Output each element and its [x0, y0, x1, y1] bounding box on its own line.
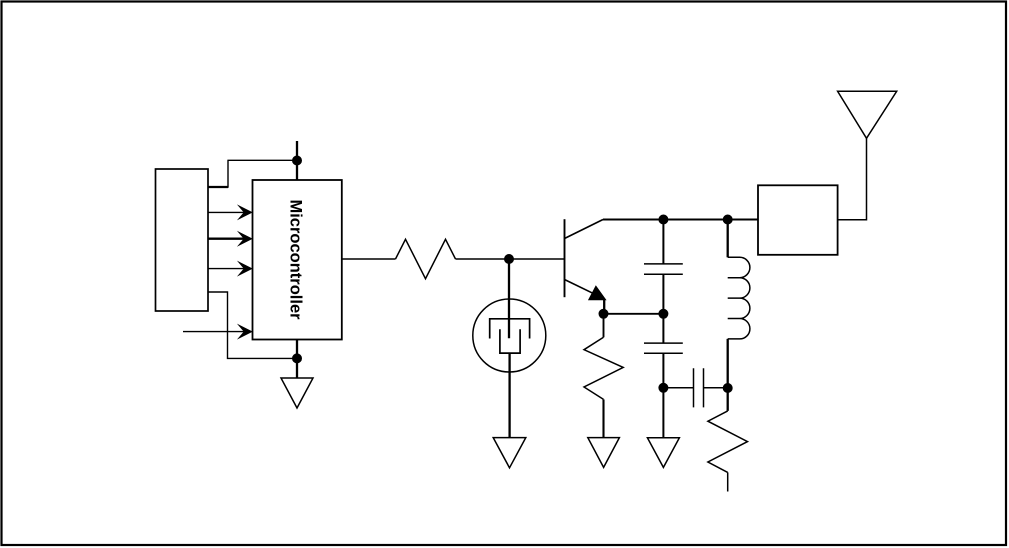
svg-text:Microcontroller: Microcontroller: [287, 199, 305, 320]
